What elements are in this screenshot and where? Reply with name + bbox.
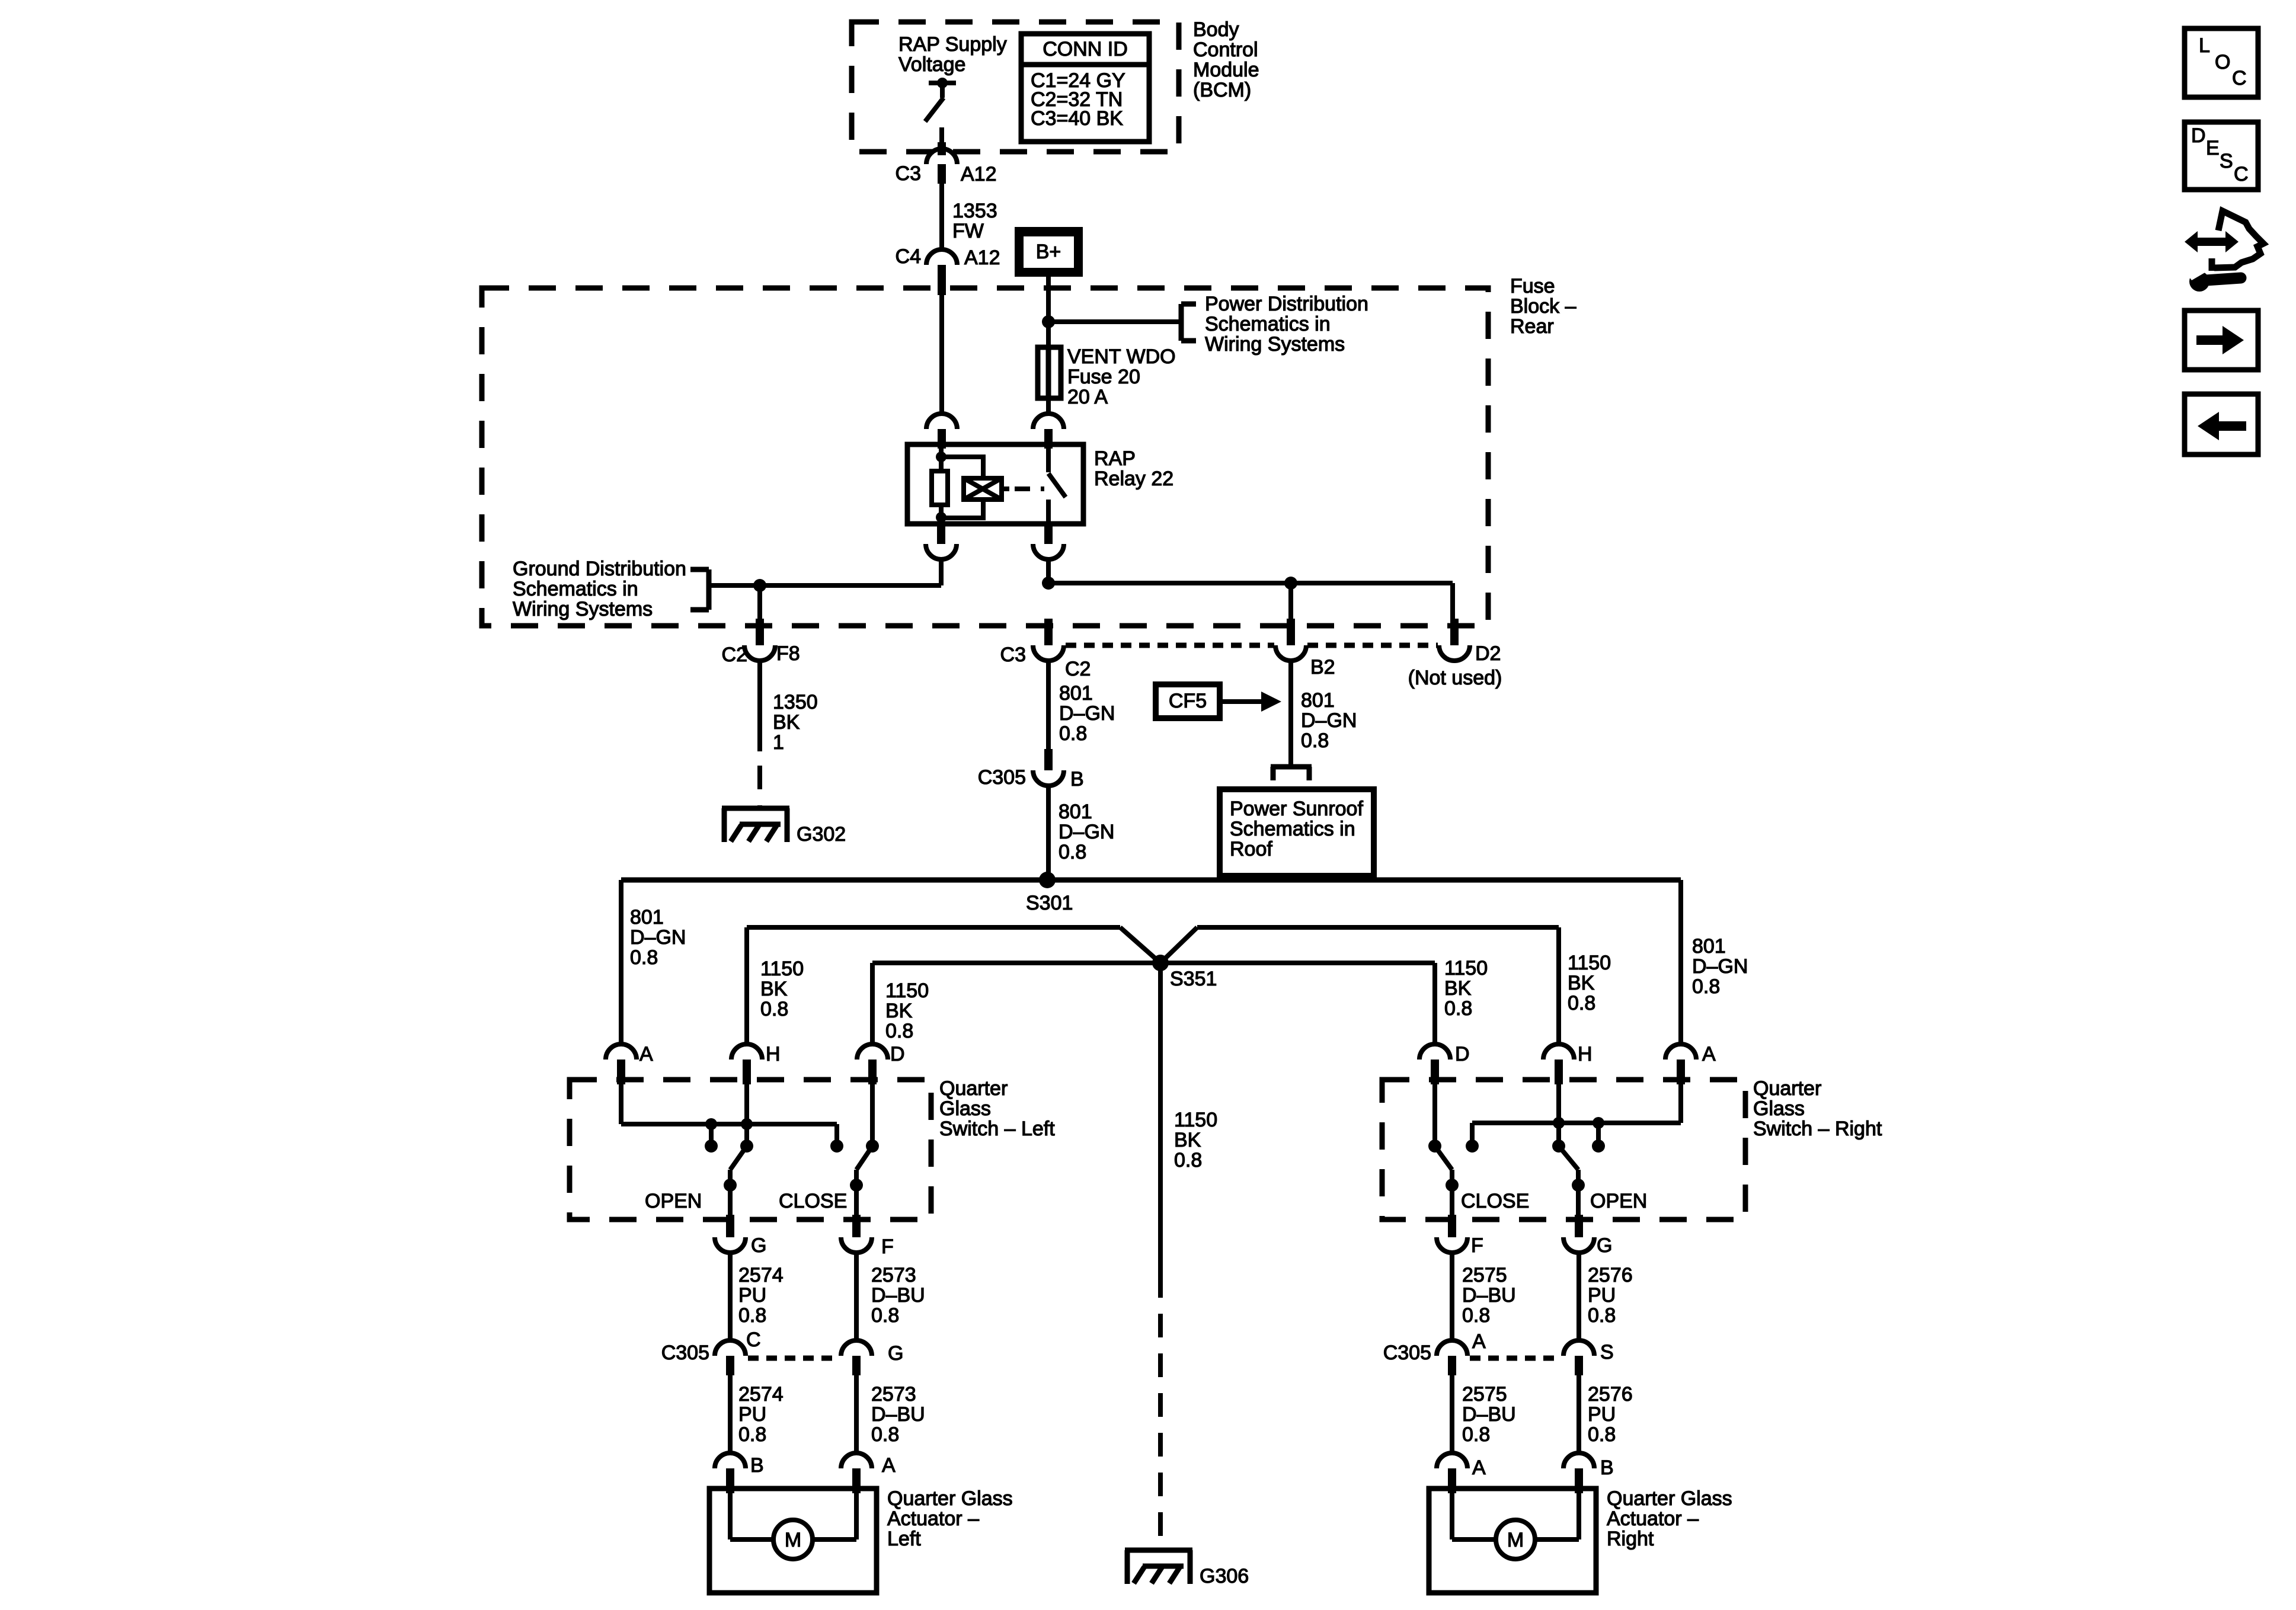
svg-text:C: C <box>2234 163 2249 185</box>
svg-text:O: O <box>2215 51 2230 73</box>
svg-text:2575: 2575 <box>1462 1383 1507 1406</box>
splice S351 net <box>747 927 1559 990</box>
svg-text:BK: BK <box>760 978 788 1000</box>
svg-text:Left: Left <box>887 1528 921 1550</box>
svg-text:B: B <box>1600 1457 1614 1479</box>
motor M (right actuator) <box>1452 1493 1579 1559</box>
svg-text:D–GN: D–GN <box>1692 955 1748 978</box>
svg-text:0.8: 0.8 <box>1444 997 1472 1020</box>
wire 2576 PU 0.8 (C305 to actuator) <box>1579 1375 1633 1453</box>
svg-text:CONN ID: CONN ID <box>1043 38 1128 60</box>
wire 1150 BK 0.8 (to left switch D) <box>872 963 929 1044</box>
svg-text:D–GN: D–GN <box>1301 709 1357 732</box>
svg-text:Glass: Glass <box>939 1097 991 1120</box>
ground G306 <box>1125 1550 1249 1587</box>
svg-text:1150: 1150 <box>1568 952 1611 974</box>
connector relay output 1 (to ground distribution) <box>926 524 957 559</box>
svg-text:0.8: 0.8 <box>1588 1423 1616 1446</box>
wire 801 D-GN 0.8 (S301 to right switch A) <box>1681 880 1748 1044</box>
svg-text:RAP: RAP <box>1094 447 1136 470</box>
connector F (left switch output) <box>841 1215 894 1258</box>
svg-text:Body: Body <box>1193 18 1239 41</box>
wire relay to ground distribution rail <box>709 559 941 592</box>
svg-text:D–BU: D–BU <box>871 1403 925 1426</box>
svg-text:F8: F8 <box>776 642 800 665</box>
wire 2574 PU 0.8 (C305 to actuator) <box>730 1375 784 1453</box>
svg-text:Quarter Glass: Quarter Glass <box>1607 1487 1732 1510</box>
table CONN ID (BCM) <box>1021 34 1149 142</box>
svg-text:L: L <box>2199 34 2210 57</box>
svg-text:Power Distribution: Power Distribution <box>1205 293 1368 315</box>
wire 801 D-GN 0.8 (to C305) <box>1048 661 1115 750</box>
svg-text:F: F <box>1471 1234 1483 1257</box>
connector G (left switch output) <box>715 1215 766 1257</box>
svg-text:BK: BK <box>1444 977 1472 1000</box>
svg-text:D: D <box>890 1043 905 1065</box>
svg-text:S: S <box>1600 1341 1614 1363</box>
fuse VENT WDO Fuse 20 / 20 A <box>1038 345 1176 408</box>
svg-text:D: D <box>2191 124 2206 147</box>
svg-text:Fuse 20: Fuse 20 <box>1067 366 1140 388</box>
connector A (right actuator) <box>1437 1453 1486 1493</box>
svg-text:Quarter: Quarter <box>1753 1077 1821 1100</box>
label RAP Relay 22 <box>1094 447 1173 490</box>
svg-text:PU: PU <box>738 1284 766 1307</box>
svg-text:Control: Control <box>1193 39 1258 61</box>
svg-text:0.8: 0.8 <box>871 1423 899 1446</box>
svg-text:1353: 1353 <box>952 200 997 222</box>
svg-text:A: A <box>639 1043 653 1065</box>
svg-text:G302: G302 <box>797 823 846 846</box>
svg-text:B+: B+ <box>1036 241 1061 263</box>
svg-text:CF5: CF5 <box>1169 690 1207 712</box>
wire 801 D-GN 0.8 (C305 to S301) <box>1048 786 1114 880</box>
wire drop to B2 <box>1288 583 1293 625</box>
wire 2576 PU 0.8 (switch to C305) <box>1579 1253 1633 1340</box>
svg-text:B: B <box>750 1454 764 1477</box>
svg-text:801: 801 <box>1059 682 1093 705</box>
svg-text:D–BU: D–BU <box>1462 1403 1516 1426</box>
svg-text:2573: 2573 <box>871 1264 916 1286</box>
svg-text:801: 801 <box>1301 689 1335 712</box>
connector half (power sunroof harness) <box>1271 767 1312 780</box>
icon button forward arrow <box>2185 311 2258 370</box>
label Body Control Module (BCM) <box>1193 18 1259 101</box>
wire 1353 FW <box>942 184 997 249</box>
svg-text:D2: D2 <box>1475 642 1501 665</box>
wire B+ down to fuse <box>1042 277 1055 347</box>
svg-text:C2: C2 <box>722 644 747 666</box>
svg-text:801: 801 <box>630 906 664 929</box>
svg-text:Relay 22: Relay 22 <box>1094 468 1173 490</box>
svg-text:Wiring Systems: Wiring Systems <box>513 598 653 620</box>
wire 2573 D-BU 0.8 (C305 to actuator) <box>856 1375 925 1453</box>
connector H (right switch) <box>1543 1043 1593 1084</box>
svg-text:Glass: Glass <box>1753 1097 1805 1120</box>
wire 2573 D-BU 0.8 (switch to C305) <box>856 1253 925 1340</box>
connector D (left switch) <box>857 1043 905 1084</box>
svg-text:D–BU: D–BU <box>1462 1284 1516 1307</box>
svg-text:S301: S301 <box>1026 892 1073 914</box>
svg-text:S351: S351 <box>1170 968 1217 990</box>
svg-text:Block –: Block – <box>1510 295 1576 318</box>
dashed inline connector link (C3-B2-D2) <box>1066 643 1438 648</box>
wire H (left switch internal) <box>744 1084 749 1146</box>
svg-text:A: A <box>1702 1043 1716 1065</box>
svg-text:2576: 2576 <box>1588 1383 1633 1406</box>
svg-text:D–GN: D–GN <box>630 926 686 949</box>
contact dots (right switch) <box>1428 1140 1605 1153</box>
switch RAP supply contact (inside BCM) <box>925 78 956 149</box>
svg-text:0.8: 0.8 <box>738 1423 766 1446</box>
label RAP Supply Voltage <box>898 33 1007 76</box>
switch blade CLOSE (left) <box>779 1146 872 1216</box>
icon vehicle outline <box>2212 211 2263 271</box>
svg-text:S: S <box>2220 150 2233 172</box>
wire 1150 BK 0.8 (S351 to ground G306) <box>1160 963 1217 1547</box>
svg-text:Wiring Systems: Wiring Systems <box>1205 333 1345 356</box>
wire 2575 D-BU 0.8 (switch to C305) <box>1452 1253 1516 1340</box>
svg-text:CLOSE: CLOSE <box>1461 1190 1529 1212</box>
svg-text:2575: 2575 <box>1462 1264 1507 1286</box>
wire 2575 D-BU 0.8 (C305 to actuator) <box>1452 1375 1516 1453</box>
svg-text:Rear: Rear <box>1510 315 1554 338</box>
connector F (right switch output) <box>1437 1215 1483 1257</box>
svg-text:2576: 2576 <box>1588 1264 1633 1286</box>
connector H (left switch) <box>731 1043 781 1084</box>
svg-text:Quarter Glass: Quarter Glass <box>887 1487 1013 1510</box>
connector C4 / A12 (fuse block input) <box>896 245 1000 295</box>
wire 801 D-GN 0.8 (S301 to left switch A) <box>621 880 686 1044</box>
svg-text:G: G <box>1597 1234 1612 1257</box>
svg-text:0.8: 0.8 <box>1692 975 1720 998</box>
wire 801 D-GN 0.8 (B2 to sunroof) <box>1291 661 1357 766</box>
wire D (left switch internal) <box>870 1084 875 1146</box>
svg-text:0.8: 0.8 <box>1462 1423 1490 1446</box>
svg-text:C305: C305 <box>1383 1342 1431 1364</box>
wire 1150 BK 0.8 (to right switch H) <box>1559 927 1611 1044</box>
svg-text:Switch – Right: Switch – Right <box>1753 1118 1882 1140</box>
svg-text:Actuator –: Actuator – <box>1607 1507 1699 1530</box>
connector C2 / F8 <box>722 619 800 666</box>
svg-text:0.8: 0.8 <box>1059 841 1086 863</box>
relay mechanical link (dashed) <box>1015 486 1044 491</box>
svg-text:Actuator –: Actuator – <box>887 1507 979 1530</box>
wire C4 to relay pin <box>939 295 944 414</box>
label Quarter Glass Switch - Right <box>1753 1077 1882 1140</box>
svg-text:D: D <box>1455 1043 1470 1065</box>
svg-text:Schematics in: Schematics in <box>513 578 638 600</box>
svg-text:20 A: 20 A <box>1067 386 1108 408</box>
svg-text:RAP Supply: RAP Supply <box>898 33 1007 56</box>
wire drop to C2/F8 <box>757 585 762 625</box>
svg-text:C: C <box>746 1329 761 1351</box>
svg-text:VENT WDO: VENT WDO <box>1067 345 1176 368</box>
svg-text:Schematics in: Schematics in <box>1205 313 1331 335</box>
svg-text:0.8: 0.8 <box>1301 729 1329 752</box>
switch blade OPEN (left) <box>645 1146 747 1216</box>
svg-text:PU: PU <box>738 1403 766 1426</box>
wire D (right switch internal) <box>1432 1084 1437 1146</box>
svg-text:0.8: 0.8 <box>871 1304 899 1327</box>
svg-text:H: H <box>766 1043 781 1065</box>
wire H (right switch internal) <box>1556 1084 1561 1146</box>
icon button LOC <box>2185 28 2258 97</box>
svg-text:C3: C3 <box>896 162 921 185</box>
svg-text:1150: 1150 <box>760 958 804 980</box>
relay winding symbol (box with X) <box>964 478 1009 500</box>
wire A feed rail (left switch) <box>621 1084 837 1146</box>
connector B (left actuator) <box>715 1453 764 1493</box>
svg-text:C3: C3 <box>1000 644 1026 666</box>
svg-text:BK: BK <box>1568 972 1595 994</box>
connector relay output 2 (switched feed) <box>1033 524 1064 559</box>
svg-text:0.8: 0.8 <box>1174 1149 1202 1172</box>
switch box Quarter Glass Switch - Right (dashed) <box>1382 1080 1745 1219</box>
connector relay switch terminal <box>1033 414 1064 449</box>
svg-text:Ground Distribution: Ground Distribution <box>513 558 686 580</box>
connector C305 / S <box>1563 1340 1614 1375</box>
svg-text:G: G <box>888 1342 903 1365</box>
svg-text:C4: C4 <box>896 245 921 268</box>
svg-text:M: M <box>785 1529 801 1551</box>
svg-text:M: M <box>1507 1529 1524 1551</box>
svg-text:D–GN: D–GN <box>1059 821 1114 843</box>
svg-text:0.8: 0.8 <box>738 1304 766 1327</box>
svg-text:A12: A12 <box>964 247 1000 269</box>
ground G302 <box>722 808 846 846</box>
svg-text:A: A <box>1472 1330 1486 1353</box>
label Quarter Glass Actuator - Right <box>1607 1487 1732 1550</box>
svg-text:A12: A12 <box>961 163 997 185</box>
svg-text:B2: B2 <box>1310 656 1335 678</box>
connector C3 / C2 (fuse block to body) <box>1000 619 1091 680</box>
label Ground Distribution Schematics in Wiring Systems <box>513 558 686 620</box>
svg-text:D–GN: D–GN <box>1059 702 1115 725</box>
switch blade CLOSE (right) <box>1435 1146 1529 1216</box>
svg-text:1150: 1150 <box>885 980 929 1002</box>
svg-text:A: A <box>882 1454 896 1477</box>
icon button DESC <box>2185 122 2258 190</box>
connector C305 / A <box>1383 1330 1486 1375</box>
connector C305 / G <box>841 1340 903 1375</box>
splice S301 bus <box>621 872 1681 914</box>
connector D (right switch) <box>1419 1043 1470 1084</box>
svg-text:BK: BK <box>1174 1129 1201 1151</box>
svg-text:H: H <box>1578 1043 1593 1065</box>
wire 1150 BK 0.8 (to right switch D) <box>1435 957 1488 1044</box>
svg-text:0.8: 0.8 <box>760 998 788 1020</box>
svg-text:1150: 1150 <box>1444 957 1488 980</box>
actuator box Quarter Glass Actuator - Right <box>1429 1489 1596 1593</box>
dashed connector link C305 (left) <box>748 1356 839 1361</box>
actuator box Quarter Glass Actuator - Left <box>709 1489 877 1593</box>
svg-text:Quarter: Quarter <box>939 1077 1008 1100</box>
svg-text:B: B <box>1070 768 1084 790</box>
svg-text:BK: BK <box>773 711 800 734</box>
svg-text:Voltage: Voltage <box>898 53 965 76</box>
svg-text:0.8: 0.8 <box>885 1020 913 1042</box>
svg-text:2574: 2574 <box>738 1264 784 1286</box>
relay coil winding loop <box>941 457 983 518</box>
svg-text:CLOSE: CLOSE <box>779 1190 847 1212</box>
svg-text:C305: C305 <box>661 1342 709 1364</box>
svg-text:Schematics in: Schematics in <box>1230 818 1355 840</box>
svg-text:801: 801 <box>1692 935 1726 958</box>
connector relay coil terminal <box>926 414 957 449</box>
svg-text:F: F <box>881 1235 894 1258</box>
label Power Distribution Schematics in Wiring Systems <box>1205 293 1368 356</box>
wire branch to power distribution <box>1048 304 1196 341</box>
svg-text:801: 801 <box>1059 801 1092 823</box>
svg-text:C305: C305 <box>978 766 1026 789</box>
dashed connector link C305 (right) <box>1470 1356 1561 1361</box>
svg-text:C3=40 BK: C3=40 BK <box>1031 107 1123 130</box>
bracket ground distribution <box>690 569 709 610</box>
switch box Quarter Glass Switch - Left (dashed) <box>570 1080 931 1219</box>
relay switch contact <box>1048 444 1066 524</box>
motor M (left actuator) <box>730 1493 856 1559</box>
svg-text:C: C <box>2232 67 2247 89</box>
wire fuse to relay pin <box>1046 398 1051 414</box>
icon vehicle double-arrow <box>2185 231 2239 252</box>
switch blade OPEN (right) <box>1559 1146 1647 1216</box>
svg-text:D–BU: D–BU <box>871 1284 925 1307</box>
svg-text:OPEN: OPEN <box>645 1190 702 1212</box>
connector B (right actuator) <box>1563 1453 1614 1493</box>
wire switched feed bus (relay to B2/D2) <box>1042 559 1453 625</box>
reference tag CF5 <box>1156 684 1281 718</box>
svg-text:Power Sunroof: Power Sunroof <box>1230 798 1363 820</box>
relay box RAP Relay 22 <box>907 444 1083 524</box>
connector C305 / C <box>661 1329 761 1375</box>
svg-text:Module: Module <box>1193 59 1259 81</box>
relay coil resistor <box>932 447 948 524</box>
component box Fuse Block - Rear (dashed) <box>482 288 1488 626</box>
svg-text:1150: 1150 <box>1174 1109 1217 1131</box>
connector D2 (Not used) <box>1408 619 1502 689</box>
wire 1350 BK 1 <box>760 661 818 806</box>
power feed B+ <box>1015 227 1083 277</box>
contact dots (left switch) <box>705 1140 879 1153</box>
svg-text:Right: Right <box>1607 1528 1654 1550</box>
svg-text:Roof: Roof <box>1230 838 1272 860</box>
connector B2 (to sunroof feed) <box>1275 619 1335 678</box>
svg-text:0.8: 0.8 <box>1462 1304 1490 1327</box>
svg-text:2573: 2573 <box>871 1383 916 1406</box>
connector G (right switch output) <box>1563 1215 1612 1257</box>
svg-text:OPEN: OPEN <box>1590 1190 1647 1212</box>
connector A (left switch) <box>606 1043 653 1084</box>
connector A (right switch) <box>1665 1043 1716 1084</box>
label Fuse Block - Rear <box>1510 275 1576 338</box>
connector A (left actuator) <box>841 1453 896 1493</box>
svg-text:(Not used): (Not used) <box>1408 667 1502 689</box>
svg-text:0.8: 0.8 <box>630 946 658 969</box>
svg-text:PU: PU <box>1588 1284 1616 1307</box>
svg-text:G: G <box>751 1234 766 1257</box>
svg-text:Fuse: Fuse <box>1510 275 1555 297</box>
label Quarter Glass Switch - Left <box>939 1077 1055 1140</box>
module box Body Control Module (dashed) <box>852 22 1179 152</box>
svg-text:2574: 2574 <box>738 1383 784 1406</box>
svg-text:1: 1 <box>773 731 784 754</box>
svg-text:PU: PU <box>1588 1403 1616 1426</box>
svg-text:G306: G306 <box>1200 1565 1249 1587</box>
svg-text:1350: 1350 <box>773 691 818 713</box>
svg-text:E: E <box>2206 137 2220 159</box>
svg-text:(BCM): (BCM) <box>1193 79 1251 101</box>
box Power Sunroof Schematics in Roof <box>1220 789 1374 876</box>
label Quarter Glass Actuator - Left <box>887 1487 1013 1550</box>
connector C3 / A12 (BCM output) <box>896 142 997 185</box>
svg-text:C2: C2 <box>1065 658 1091 680</box>
icon button back arrow <box>2185 394 2258 454</box>
icon wrench <box>2186 264 2241 292</box>
svg-text:A: A <box>1472 1457 1486 1479</box>
svg-text:0.8: 0.8 <box>1588 1304 1616 1327</box>
connector C305 / B <box>978 749 1084 790</box>
svg-text:0.8: 0.8 <box>1059 722 1087 745</box>
wire 1150 BK 0.8 (to left switch H) <box>747 927 804 1044</box>
svg-text:Switch – Left: Switch – Left <box>939 1118 1055 1140</box>
svg-text:FW: FW <box>952 220 984 242</box>
svg-text:BK: BK <box>885 1000 913 1022</box>
wire 2574 PU 0.8 (switch to C305) <box>730 1253 784 1340</box>
wire A feed rail (right switch) <box>1472 1084 1681 1146</box>
svg-text:0.8: 0.8 <box>1568 992 1595 1014</box>
